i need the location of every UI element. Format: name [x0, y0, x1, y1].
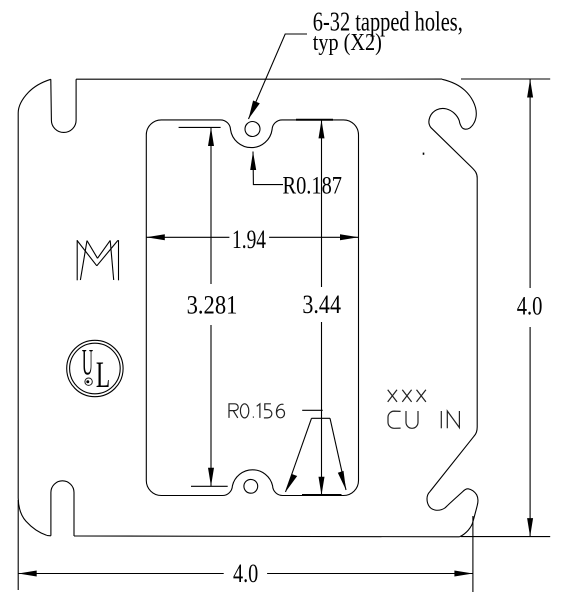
wire: bottom-left mounting notch: [51, 481, 74, 536]
svg-text:1.94: 1.94: [232, 224, 266, 254]
extension line: 3.44 top: [296, 119, 333, 121]
plate outline (4x4 square cover): [18, 79, 478, 537]
leader: R0.187: [253, 152, 283, 185]
wire: bottom edge left stub: [47, 535, 51, 537]
dimension line: right 4.0 vertical: [529, 79, 531, 288]
extension line: 3.281 top (hole center): [179, 126, 221, 128]
svg-text:L: L: [96, 355, 110, 396]
leader: R0.156 double arrow: [286, 410, 347, 492]
svg-text:4.0: 4.0: [517, 291, 543, 321]
wire: bottom edge: [74, 535, 460, 538]
arrow: bottom 4.0 left: [18, 571, 37, 577]
arrow: 1.94 left: [146, 234, 165, 240]
dim text: R0.156 (stroke CAD font): [229, 404, 285, 418]
dimension line: 1.94 horizontal: [146, 236, 229, 238]
arrow: 1.94 right: [340, 234, 359, 240]
dimension line: bottom 4.0 horizontal: [18, 573, 224, 575]
dimension line: 3.44 vertical: [321, 120, 323, 287]
hole: bottom 6-32 tapped hole: [244, 479, 258, 493]
svg-text:3.281: 3.281: [187, 290, 238, 320]
wire: right edge: [430, 178, 477, 492]
svg-text:R0.187: R0.187: [283, 173, 343, 200]
dimension line: 3.281 vertical: [210, 127, 212, 284]
arrowheads: [18, 79, 533, 577]
logo: UL listed mark: [67, 340, 123, 396]
wire: cutout outline with screw scallops: [146, 120, 358, 496]
svg-text:3.44: 3.44: [302, 289, 341, 319]
arrow: 3.44 top: [319, 120, 325, 138]
stamped text: CU IN: [388, 411, 459, 428]
wire: top-left mounting notch: [51, 79, 76, 132]
stamped text: xxx: [388, 390, 426, 402]
logo: stylized M manufacturer mark: [77, 240, 118, 280]
svg-text:4.0: 4.0: [233, 558, 258, 588]
arrow: 3.44 bottom: [319, 477, 325, 496]
arrow: R0.156 left: [286, 474, 298, 492]
extension line: bottom 4.0 left (left edge extended): [17, 500, 19, 590]
arrow: bottom 4.0 right: [454, 571, 473, 577]
stray ink dot: [423, 153, 425, 155]
wire: top edge: [76, 78, 442, 80]
svg-text:typ (X2): typ (X2): [313, 30, 382, 56]
extension line: 3.281 bottom (hole center): [191, 485, 228, 487]
hole: top 6-32 tapped hole: [245, 122, 260, 137]
wire: bottom-right hook slot: [427, 489, 478, 537]
wire: top-left corner arc and left edge: [18, 79, 51, 535]
arrow: 3.281 top: [208, 127, 214, 146]
dimensions: [18, 79, 550, 592]
svg-text:U: U: [82, 343, 93, 384]
extension line: 3.44 bottom: [302, 494, 342, 496]
arrow: 6-32 leader: [249, 101, 260, 120]
leader: 6-32 tapped holes callout: [249, 34, 308, 119]
arrow: R0.187: [250, 152, 256, 171]
central device cutout: [146, 120, 358, 496]
extension line: bottom 4.0 right: [472, 516, 474, 592]
arrow: right 4.0 bottom: [527, 518, 533, 537]
extension line: right 4.0 top (top edge extended): [461, 78, 550, 80]
arrow: 3.281 bottom: [208, 468, 214, 487]
arrow: right 4.0 top: [527, 79, 533, 98]
extension line: right 4.0 bottom (bottom edge extended): [461, 536, 550, 538]
wire: top-right hook slot: [429, 79, 477, 178]
arrow: R0.156 right: [338, 471, 346, 490]
